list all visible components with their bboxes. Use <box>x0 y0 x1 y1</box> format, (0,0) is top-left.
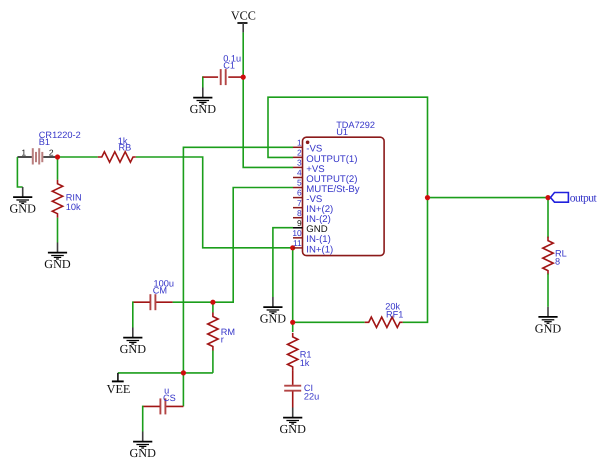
svg-text:8: 8 <box>555 257 560 267</box>
svg-text:GND: GND <box>260 312 287 326</box>
svg-text:22u: 22u <box>304 392 319 402</box>
svg-text:GND: GND <box>279 422 306 436</box>
svg-text:VCC: VCC <box>231 9 256 23</box>
svg-text:GND: GND <box>190 102 217 116</box>
svg-text:GND: GND <box>535 321 562 335</box>
svg-text:RB: RB <box>119 143 132 153</box>
svg-text:2: 2 <box>49 147 54 157</box>
svg-text:11: 11 <box>293 238 302 248</box>
svg-text:output: output <box>570 191 598 204</box>
svg-text:10k: 10k <box>66 202 81 212</box>
svg-text:r: r <box>221 335 224 345</box>
svg-text:GND: GND <box>44 257 71 271</box>
svg-text:GND: GND <box>120 342 147 356</box>
svg-text:1: 1 <box>297 137 302 147</box>
svg-text:5: 5 <box>297 178 302 188</box>
svg-text:1k: 1k <box>300 358 310 368</box>
svg-text:B1: B1 <box>39 137 50 147</box>
svg-text:IN+(1): IN+(1) <box>306 244 333 255</box>
svg-text:U1: U1 <box>336 127 348 137</box>
svg-text:9: 9 <box>297 218 302 228</box>
svg-text:2: 2 <box>297 147 302 157</box>
svg-text:RF1: RF1 <box>386 310 403 320</box>
svg-text:1: 1 <box>21 147 26 157</box>
svg-text:3: 3 <box>297 158 302 168</box>
svg-text:CS: CS <box>163 393 176 403</box>
svg-text:6: 6 <box>297 188 302 198</box>
svg-text:10: 10 <box>292 228 302 238</box>
svg-text:4: 4 <box>297 168 302 178</box>
svg-text:GND: GND <box>129 446 156 460</box>
svg-text:CM: CM <box>153 285 167 295</box>
svg-text:7: 7 <box>297 198 302 208</box>
svg-text:GND: GND <box>9 202 36 216</box>
svg-text:C1: C1 <box>223 60 235 70</box>
svg-text:VEE: VEE <box>107 382 131 396</box>
svg-text:8: 8 <box>297 208 302 218</box>
